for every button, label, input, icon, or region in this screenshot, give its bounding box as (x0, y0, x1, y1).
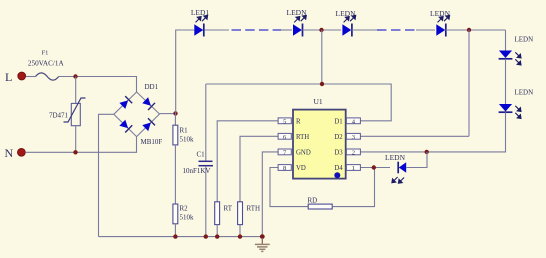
svg-text:DD1: DD1 (145, 83, 159, 91)
pin 7 box (278, 149, 291, 156)
resistor R1 (173, 113, 194, 144)
junction top tap (319, 28, 323, 32)
svg-text:250VAC/1A: 250VAC/1A (28, 60, 65, 68)
wire pin6 RTH to RTH resistor (240, 136, 278, 202)
svg-text:LEDN: LEDN (385, 153, 406, 162)
wire RTH to rail (239, 225, 241, 237)
wire junction down to pin D2 (468, 30, 470, 136)
svg-text:D1: D1 (334, 118, 342, 125)
varistor RV 7D471 (49, 77, 86, 153)
LED LEDN4 (430, 9, 451, 37)
svg-text:10nF1KV: 10nF1KV (182, 167, 210, 175)
pin 8 box (278, 165, 291, 172)
LED LEDN3 (336, 9, 357, 37)
bridge rectifier DD1 MB10F (114, 83, 163, 146)
wire to LEDN4 (416, 29, 435, 31)
svg-text:RD: RD (308, 196, 318, 204)
wire pin7 GND down (262, 152, 278, 237)
wire C1 top to D1 (206, 84, 391, 121)
LED LEDN6 (down) (499, 89, 534, 119)
LED LEDN2 (287, 8, 308, 37)
junction D3 LEDN loop (425, 150, 429, 154)
wire LEDN2 to junction (302, 29, 341, 31)
junction on L wire (73, 74, 77, 78)
wire R1 to R2 (174, 145, 176, 204)
LED1 (191, 8, 210, 37)
svg-text:MB10F: MB10F (141, 138, 163, 146)
junction C1/D1/tap (320, 82, 324, 86)
wire RT to rail (216, 225, 218, 237)
pin 5 box (278, 118, 291, 125)
junction RTH rail (238, 234, 242, 238)
svg-text:7D471: 7D471 (49, 112, 69, 120)
wire LEDN3 to dashes (351, 29, 377, 31)
resistor RTH (238, 202, 260, 225)
wire N to bridge bottom (26, 137, 137, 153)
wire to LEDN2 (281, 29, 292, 31)
svg-text:2: 2 (352, 149, 355, 156)
wire pin5 R to RT (217, 121, 278, 202)
wire pin4 D1 stub (346, 120, 361, 122)
svg-text:LEDN: LEDN (515, 36, 534, 44)
terminal N (5, 146, 26, 160)
svg-text:D3: D3 (334, 150, 343, 157)
dashed LED string continuation (232, 29, 282, 31)
resistor RD (308, 196, 333, 209)
junction RT rail (215, 234, 219, 238)
resistor RT (215, 202, 233, 225)
wire fuse to bridge top (59, 77, 137, 93)
junction DC+ node (173, 111, 177, 115)
svg-text:R1: R1 (180, 127, 189, 135)
terminal L (5, 70, 26, 84)
diode TL (119, 96, 132, 109)
wire R2 to rail (174, 224, 176, 237)
wire pin8 VD loop with RD (270, 168, 308, 207)
junction R2 rail (173, 234, 177, 238)
svg-text:U1: U1 (314, 97, 323, 106)
svg-text:RT: RT (224, 204, 233, 212)
svg-text:R2: R2 (180, 205, 189, 213)
svg-text:510k: 510k (180, 214, 195, 222)
right LED column wire top (505, 30, 507, 51)
svg-text:C1: C1 (197, 151, 206, 159)
fuse F1 (28, 50, 65, 81)
bottom rail (99, 236, 263, 238)
pin 3 box (346, 133, 360, 140)
capacitor C1 (182, 84, 213, 237)
LED LEDN7 (left pointing) (385, 153, 406, 183)
wire RD up to D4 node (332, 168, 374, 207)
svg-text:D4: D4 (334, 165, 343, 172)
svg-text:L: L (5, 70, 12, 84)
pin 6 box (278, 133, 291, 140)
resistor R2 (173, 204, 194, 224)
wire tap down to C1 node (321, 30, 323, 84)
wire right column down to D3 (360, 112, 505, 152)
svg-text:VD: VD (296, 165, 306, 172)
junction D4 node (372, 165, 376, 169)
pin 4 box (346, 118, 360, 125)
junction varistor on N wire (73, 150, 77, 154)
svg-text:D2: D2 (334, 134, 343, 141)
wire bridge right vertex to node (160, 113, 176, 115)
wire pin3 D2 to right riser (346, 135, 469, 137)
wire LED1 to dashes (205, 29, 229, 31)
wire pin2 D3 stub (346, 151, 361, 153)
svg-text:R: R (296, 118, 301, 125)
pin 1 box (346, 165, 360, 172)
wire between right column LEDs (505, 59, 507, 104)
wire L input to fuse (26, 76, 36, 78)
junction C1 rail (204, 234, 208, 238)
svg-text:LEDN: LEDN (515, 89, 534, 97)
svg-text:RTH: RTH (247, 204, 261, 212)
svg-text:GND: GND (296, 150, 311, 157)
wire pin1 D4 (346, 167, 390, 169)
wire DC+ node up to LED string (176, 30, 195, 113)
svg-text:N: N (5, 146, 14, 160)
junction ground (260, 234, 265, 239)
wire bridge left vertex to bottom rail (99, 114, 114, 236)
junction top right (467, 28, 471, 32)
ground (255, 238, 270, 251)
diode TR (142, 97, 155, 110)
wire LEDN7 up to D3 wire (407, 152, 428, 168)
svg-text:510k: 510k (180, 136, 195, 144)
diode BL (119, 120, 132, 133)
svg-text:1: 1 (352, 165, 355, 172)
svg-text:RTH: RTH (296, 134, 309, 141)
IC U1 (293, 97, 346, 179)
svg-text:F1: F1 (42, 50, 49, 57)
pin 2 box (346, 149, 360, 156)
diode BR (142, 118, 155, 131)
wire LEDN4 to right corner (445, 29, 505, 31)
LED LEDN5 (down) (499, 36, 534, 66)
dashed LED string continuation 2 (377, 29, 416, 31)
